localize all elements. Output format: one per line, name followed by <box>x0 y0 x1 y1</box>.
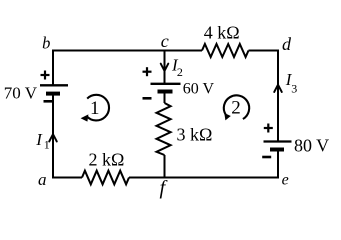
svg-text:I: I <box>35 130 43 149</box>
battery V3 plus sign <box>264 124 273 133</box>
svg-text:3 kΩ: 3 kΩ <box>177 124 213 144</box>
svg-text:80 V: 80 V <box>294 135 329 155</box>
svg-text:4 kΩ: 4 kΩ <box>204 23 240 43</box>
battery V1 plus sign <box>41 71 50 80</box>
battery V3 80V long plus plate <box>264 140 292 142</box>
battery V1 70V short minus plate <box>46 92 60 96</box>
svg-text:60 V: 60 V <box>183 81 215 98</box>
svg-text:3: 3 <box>291 82 297 96</box>
svg-text:2: 2 <box>231 98 241 119</box>
svg-text:d: d <box>282 34 292 54</box>
wire 60V battery to 3k resistor <box>164 92 166 103</box>
loop 1 arrow (clockwise circle) <box>81 95 109 122</box>
wire b to 4k resistor (top left horizontal + left vertical down to 70V battery) <box>53 51 202 86</box>
svg-text:2: 2 <box>177 65 183 79</box>
battery V2 60V long plus plate <box>151 83 181 85</box>
wire 80V battery to e to f to 2k resistor <box>129 150 278 178</box>
current arrow I3 (up, on right wire) <box>274 85 282 92</box>
battery V3 minus sign <box>262 156 271 159</box>
wire 3k resistor to f <box>164 155 166 178</box>
battery V2 60V short minus plate <box>158 90 173 94</box>
svg-text:1: 1 <box>90 98 100 119</box>
resistor 4 kOhm zigzag <box>202 44 249 57</box>
svg-text:1: 1 <box>44 138 50 152</box>
svg-text:e: e <box>282 172 289 189</box>
svg-text:a: a <box>38 170 47 189</box>
resistor 3 kOhm zigzag <box>157 103 171 155</box>
current arrow I1 (up, on left wire) <box>49 134 57 141</box>
svg-text:2 kΩ: 2 kΩ <box>89 149 125 169</box>
wire 2k resistor to a and up to 70V battery <box>53 94 82 178</box>
wire c down to 60V battery <box>164 51 166 84</box>
svg-text:b: b <box>42 33 50 52</box>
svg-text:70 V: 70 V <box>4 84 38 103</box>
battery V2 plus sign <box>143 67 152 76</box>
battery V2 minus sign <box>143 97 152 100</box>
svg-text:f: f <box>159 177 168 199</box>
battery V1 70V long plus plate <box>40 84 68 86</box>
current arrow I2 (down, on c branch) <box>161 64 169 71</box>
wire 4k resistor to d and down to 80V battery <box>249 51 279 142</box>
svg-text:c: c <box>161 31 169 51</box>
resistor 2 kOhm zigzag <box>82 171 129 185</box>
battery V1 minus sign <box>44 100 53 103</box>
loop 2 arrow (counterclockwise circle) <box>224 95 249 120</box>
battery V3 80V short minus plate <box>270 148 284 152</box>
